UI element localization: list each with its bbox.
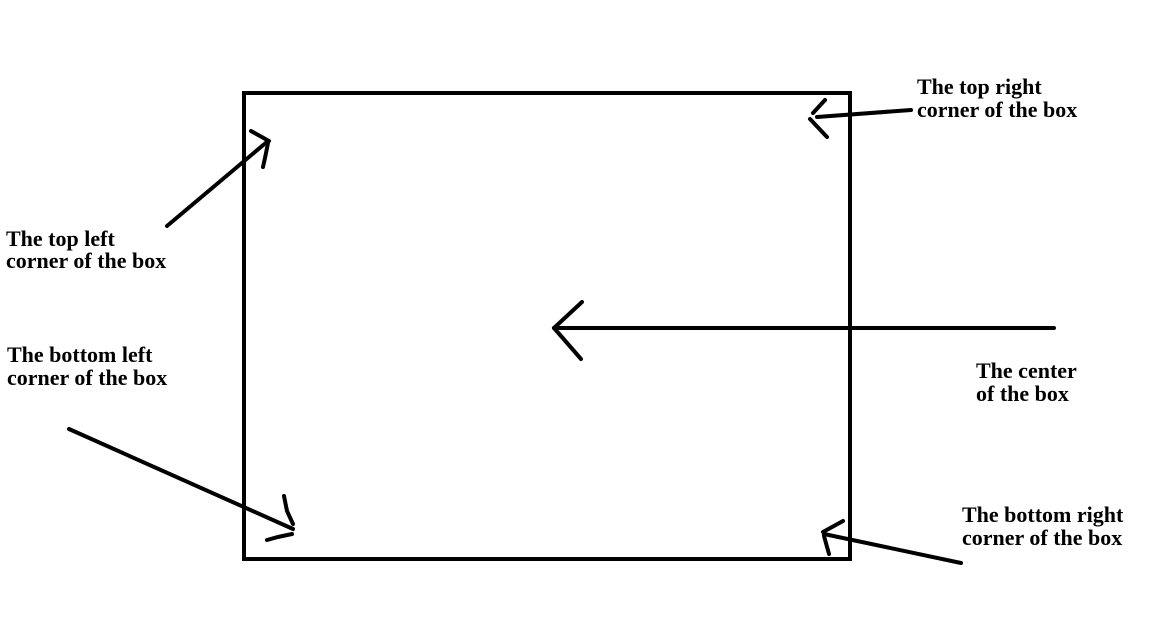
wire shaft — [554, 326, 1054, 330]
box — [244, 93, 850, 559]
arrowhead barb upper — [251, 131, 269, 141]
arrowhead barb upper — [284, 496, 293, 524]
wire shaft — [167, 141, 268, 226]
arrowhead barb lower — [554, 328, 581, 359]
arrowhead barb upper — [813, 100, 825, 113]
arrowhead barb lower — [810, 119, 827, 137]
arrowhead barb lower — [824, 536, 829, 554]
arrow to top left corner — [167, 131, 269, 226]
arrowhead barb lower — [263, 143, 268, 167]
arrowhead barb upper — [823, 521, 843, 532]
svg-text:of the box: of the box — [976, 381, 1069, 406]
svg-text:corner of the box: corner of the box — [917, 97, 1077, 122]
arrow to bottom left corner — [69, 429, 293, 540]
svg-text:The center: The center — [976, 358, 1077, 383]
svg-text:corner of the box: corner of the box — [6, 248, 166, 273]
svg-text:The bottom right: The bottom right — [962, 502, 1124, 527]
svg-text:The top right: The top right — [917, 74, 1042, 99]
arrowhead barb lower — [267, 534, 292, 540]
wire shaft — [69, 429, 293, 529]
arrow to center — [554, 302, 1054, 359]
arrowhead barb upper — [554, 302, 582, 328]
arrow to bottom right corner — [823, 521, 961, 563]
svg-text:corner of the box: corner of the box — [7, 365, 167, 390]
arrow to top right corner — [810, 100, 911, 137]
svg-text:corner of the box: corner of the box — [962, 525, 1122, 550]
svg-text:The bottom left: The bottom left — [7, 342, 153, 367]
wire shaft — [817, 110, 911, 117]
wire shaft — [824, 534, 961, 563]
